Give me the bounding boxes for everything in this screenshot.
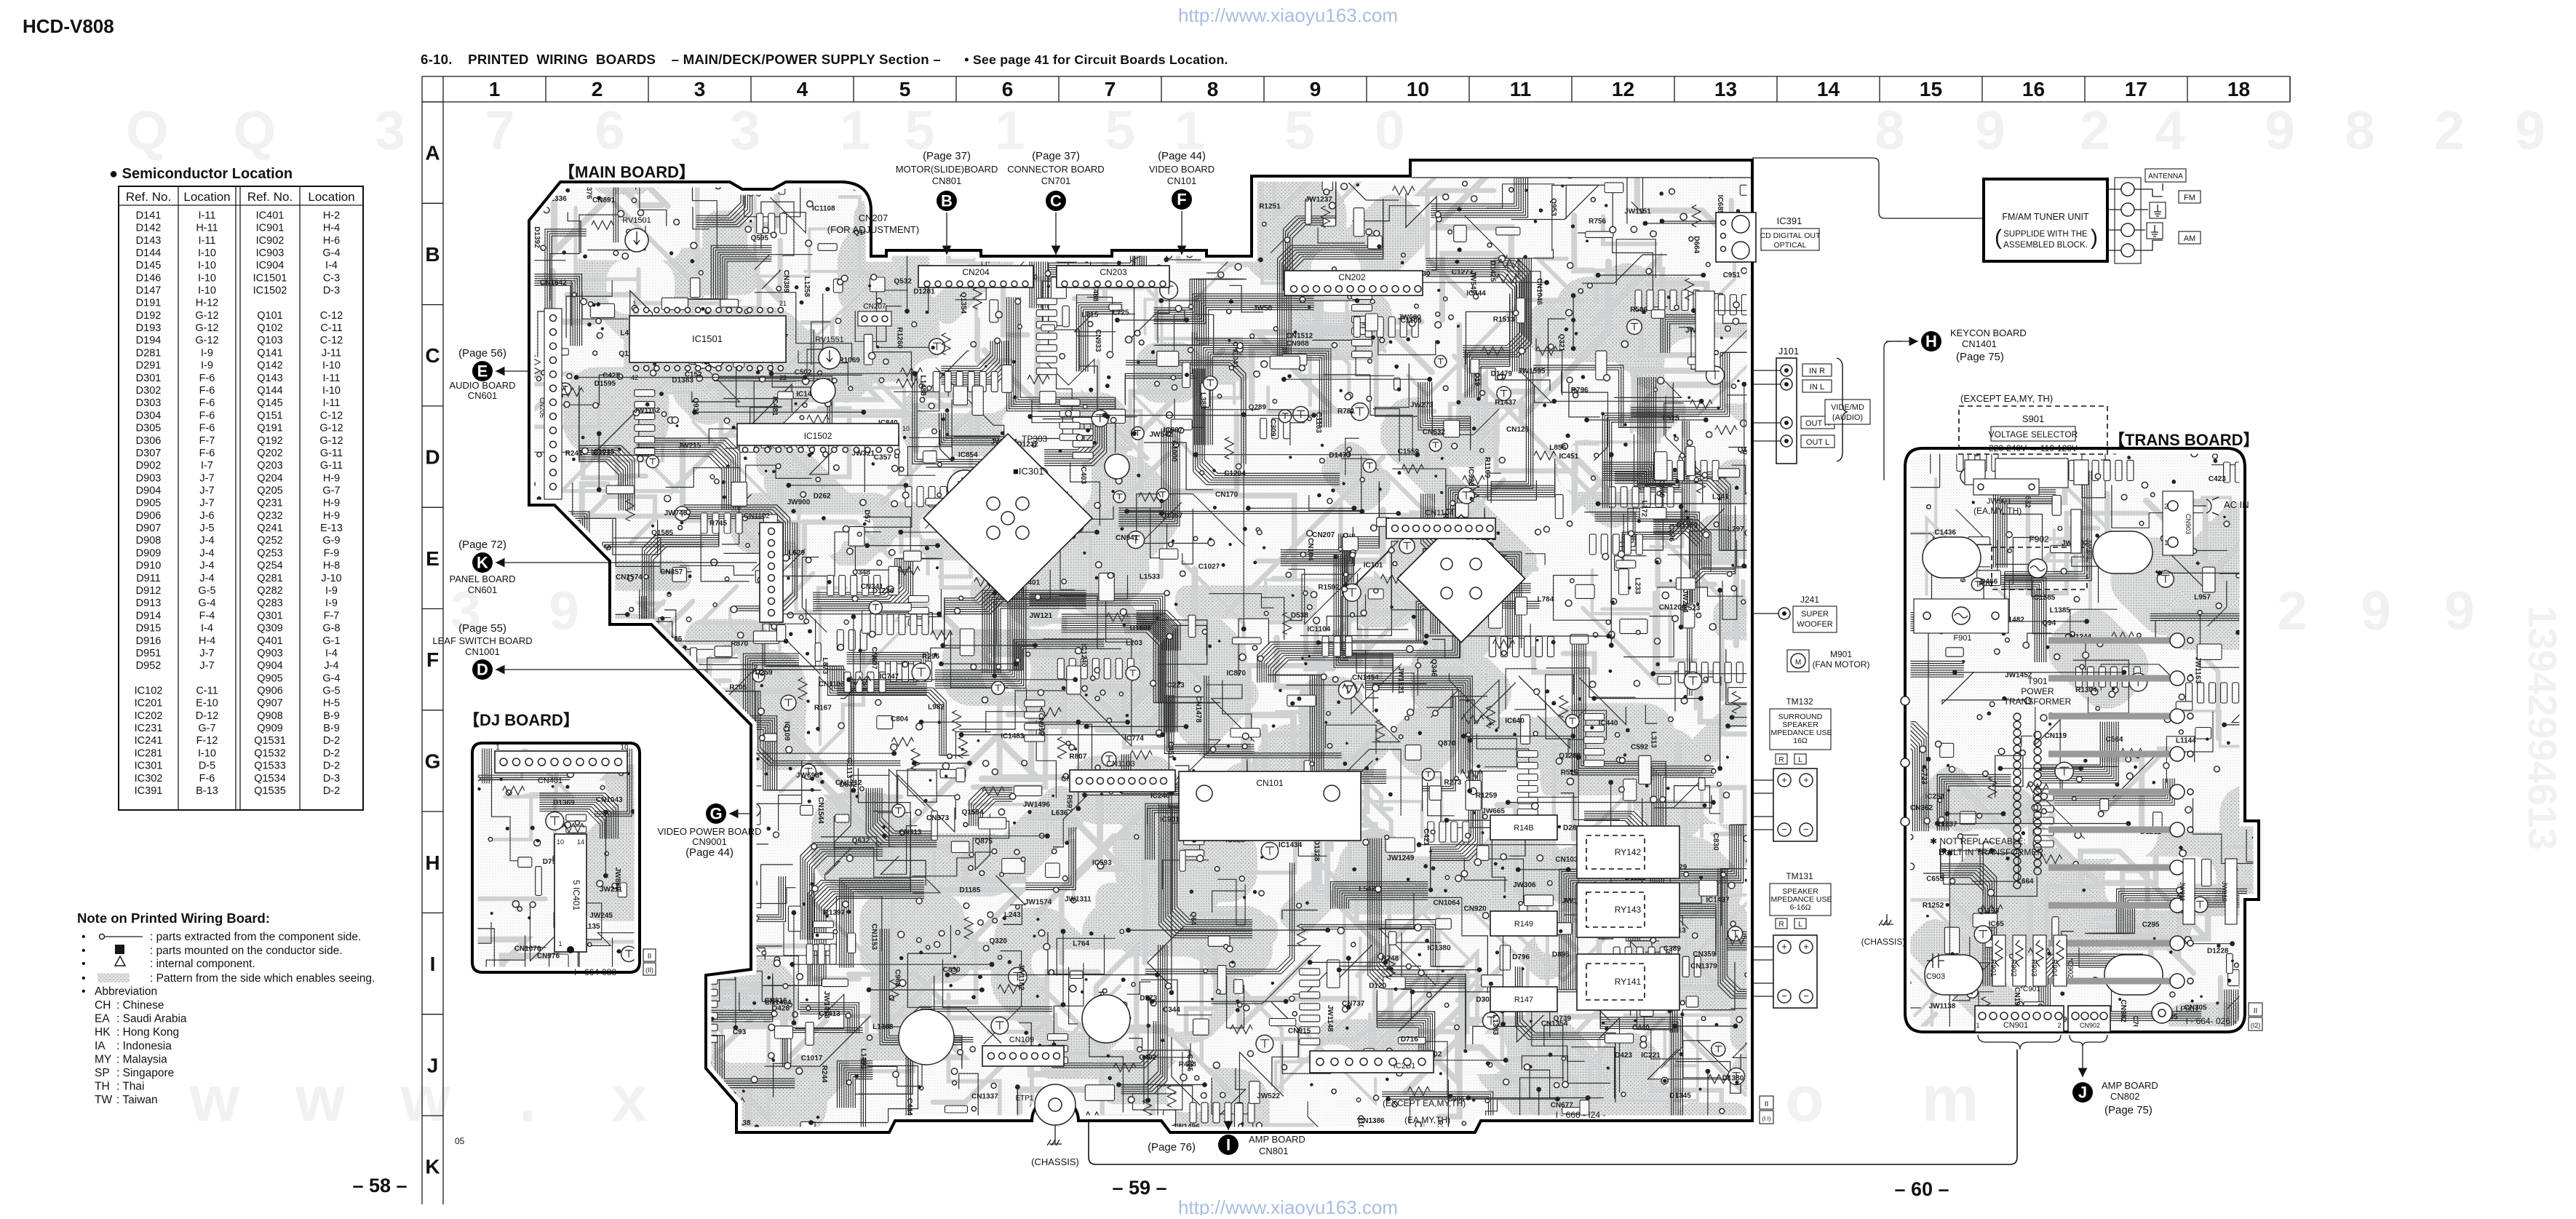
svg-text:Q253: Q253 xyxy=(257,547,282,559)
svg-text:A: A xyxy=(425,142,440,164)
svg-text:OPTICAL: OPTICAL xyxy=(1774,241,1807,250)
TM132 terminal block xyxy=(1773,769,1817,841)
svg-text:TW: TW xyxy=(95,1094,112,1106)
svg-text:: internal component.: : internal component. xyxy=(150,958,255,970)
svg-text:F: F xyxy=(426,648,439,671)
connector CN1102 xyxy=(760,523,783,622)
svg-text:D-3: D-3 xyxy=(323,773,340,785)
svg-text:8: 8 xyxy=(1875,100,1905,161)
trans chassis ground xyxy=(1886,914,1888,924)
svg-text:Q1535: Q1535 xyxy=(254,785,286,797)
svg-text:: Thai: : Thai xyxy=(116,1081,145,1093)
svg-text:http://www.xiaoyu163.com: http://www.xiaoyu163.com xyxy=(1178,1196,1398,1215)
fuse F901 xyxy=(1914,599,2008,633)
trans connector CN902 xyxy=(2068,1006,2110,1032)
svg-text:WOOFER: WOOFER xyxy=(1797,620,1833,629)
trans oval cutout top left xyxy=(1923,537,1981,578)
svg-text:G-12: G-12 xyxy=(195,335,218,346)
TM131 terminal block xyxy=(1773,935,1817,1008)
connector CN1401 keycon trace xyxy=(1696,291,1714,371)
svg-text:IC1502: IC1502 xyxy=(253,285,287,297)
svg-text:CN601: CN601 xyxy=(468,390,497,401)
svg-text:http://www.xiaoyu163.com: http://www.xiaoyu163.com xyxy=(1178,4,1398,26)
transformer winding fingers xyxy=(2048,638,2176,644)
connector CN202 xyxy=(1284,271,1423,295)
J241 super woofer xyxy=(1752,613,1780,614)
svg-text:Q281: Q281 xyxy=(257,573,282,584)
svg-text:(Page 76): (Page 76) xyxy=(1148,1141,1196,1154)
svg-text:JW1222: JW1222 xyxy=(597,1047,625,1055)
svg-text:C-12: C-12 xyxy=(320,335,343,346)
svg-text:1: 1 xyxy=(489,78,501,100)
svg-text:M901: M901 xyxy=(1830,649,1852,659)
svg-text:Q1534: Q1534 xyxy=(254,773,286,785)
svg-text:5: 5 xyxy=(899,78,911,100)
capacitor C903 xyxy=(1927,953,1944,968)
svg-text:IN R: IN R xyxy=(1809,367,1825,376)
svg-text:Q401: Q401 xyxy=(257,635,282,647)
resistor R147 xyxy=(1490,987,1557,1012)
svg-text:•: • xyxy=(82,945,86,957)
svg-text:F-6: F-6 xyxy=(199,385,215,397)
svg-text:TM131: TM131 xyxy=(1786,871,1813,881)
svg-text:: Indonesia: : Indonesia xyxy=(116,1040,172,1052)
connector CN1103 xyxy=(1070,770,1175,792)
svg-text:(Page 75): (Page 75) xyxy=(2104,1104,2152,1116)
svg-text:I-10: I-10 xyxy=(198,272,216,284)
svg-text:22: 22 xyxy=(779,374,787,381)
resistor R149 xyxy=(1490,911,1557,936)
svg-text:IC201: IC201 xyxy=(135,698,163,710)
svg-text:CN903: CN903 xyxy=(2185,514,2192,534)
svg-text:I-10: I-10 xyxy=(322,385,341,397)
svg-text:D909: D909 xyxy=(136,547,162,559)
svg-text:7: 7 xyxy=(485,100,515,161)
svg-text:Q301: Q301 xyxy=(257,610,282,622)
chassis mount circle ETP1 xyxy=(1035,1084,1076,1125)
svg-text:OUT L: OUT L xyxy=(1806,438,1829,447)
svg-text:: Taiwan: : Taiwan xyxy=(116,1094,158,1106)
svg-text:CN101: CN101 xyxy=(1256,778,1284,788)
long connection path main to trans CN901 xyxy=(1089,1049,2017,1164)
svg-text:CN1001: CN1001 xyxy=(465,646,500,657)
svg-text:I-9: I-9 xyxy=(201,347,213,359)
svg-text:C380: C380 xyxy=(654,713,672,721)
brace under CN902 xyxy=(2070,1035,2107,1047)
svg-text:JW911: JW911 xyxy=(2179,881,2186,901)
svg-text:8: 8 xyxy=(2345,100,2375,161)
svg-text:CN601: CN601 xyxy=(468,584,497,595)
svg-text:H-8: H-8 xyxy=(323,560,340,572)
svg-text:+: + xyxy=(1803,941,1809,952)
svg-text:+: + xyxy=(1803,774,1809,785)
svg-text:F-6: F-6 xyxy=(199,773,215,785)
svg-text:R903: R903 xyxy=(2030,959,2038,977)
svg-text:R149: R149 xyxy=(1514,920,1533,929)
antenna label xyxy=(2145,169,2186,182)
AC IN plug xyxy=(2193,497,2219,515)
svg-text:C246: C246 xyxy=(1054,215,1072,223)
svg-text:B: B xyxy=(941,192,953,210)
svg-text:I-4: I-4 xyxy=(325,260,338,271)
svg-text:D-5: D-5 xyxy=(199,761,215,772)
svg-text:10: 10 xyxy=(1407,78,1429,100)
svg-text:C903: C903 xyxy=(1926,972,1945,981)
svg-text:(CHASSIS): (CHASSIS) xyxy=(1031,1156,1079,1167)
AC IN connector CN903 xyxy=(2163,491,2193,555)
svg-text:Abbreviation: Abbreviation xyxy=(95,985,157,998)
svg-text:EA: EA xyxy=(95,1013,110,1025)
svg-text:B-9: B-9 xyxy=(323,710,340,722)
svg-text:D911: D911 xyxy=(136,573,161,584)
svg-text:C-12: C-12 xyxy=(320,310,343,322)
svg-text:R147: R147 xyxy=(1514,996,1533,1004)
svg-text:Q151: Q151 xyxy=(257,410,282,421)
lamp LP901 xyxy=(2152,1003,2172,1023)
svg-text:K: K xyxy=(477,554,488,572)
svg-text:G: G xyxy=(425,750,441,773)
svg-text:(Page 55): (Page 55) xyxy=(458,622,506,635)
svg-text:42: 42 xyxy=(631,374,638,381)
svg-text:Q141: Q141 xyxy=(257,347,282,359)
connector CN1104 xyxy=(1386,518,1495,539)
svg-text:D193: D193 xyxy=(136,322,162,334)
svg-text:JW901: JW901 xyxy=(1987,497,2011,506)
svg-text:POWER: POWER xyxy=(2021,686,2054,696)
svg-text:(Page 37): (Page 37) xyxy=(923,150,971,162)
connector CN101 big xyxy=(1179,771,1361,841)
svg-text:G-4: G-4 xyxy=(322,247,340,259)
svg-text:VIDE/MD: VIDE/MD xyxy=(1831,403,1864,412)
svg-text:Q309: Q309 xyxy=(257,623,282,635)
svg-text:G-12: G-12 xyxy=(319,435,343,447)
svg-text:TM132: TM132 xyxy=(1786,696,1813,707)
svg-text:4: 4 xyxy=(2155,100,2185,161)
svg-text:5: 5 xyxy=(1284,100,1315,161)
svg-text:9: 9 xyxy=(549,580,579,641)
svg-text:R1056: R1056 xyxy=(691,974,699,996)
svg-text:m: m xyxy=(1922,1063,1979,1135)
trimmer RV1551 xyxy=(819,347,840,369)
svg-text:I-10: I-10 xyxy=(198,285,216,297)
svg-text:IC211: IC211 xyxy=(587,998,607,1006)
svg-text:I-11: I-11 xyxy=(199,210,216,221)
svg-text:CN204: CN204 xyxy=(962,267,990,277)
svg-text:R901: R901 xyxy=(1989,959,1997,977)
svg-text:R710: R710 xyxy=(697,913,715,921)
fan motor M901 xyxy=(1787,650,1809,672)
svg-text:F902: F902 xyxy=(2029,534,2049,544)
svg-text:IC281: IC281 xyxy=(135,747,163,759)
svg-text:K: K xyxy=(425,1156,440,1178)
svg-text:w: w xyxy=(295,1063,346,1135)
svg-text:IC302: IC302 xyxy=(135,773,163,785)
svg-text:w: w xyxy=(189,1063,240,1135)
svg-text:CN802: CN802 xyxy=(2110,1091,2139,1102)
svg-text:D303: D303 xyxy=(136,397,162,409)
svg-text:D915: D915 xyxy=(136,623,162,635)
svg-text:D304: D304 xyxy=(136,410,162,421)
connector CN207 xyxy=(858,311,891,326)
main board copper pattern texture xyxy=(431,60,1884,1219)
svg-text:11: 11 xyxy=(1510,78,1532,100)
svg-text:H-9: H-9 xyxy=(323,510,340,522)
IC391 optical connector xyxy=(1716,213,1756,262)
svg-text:(Page 37): (Page 37) xyxy=(1032,150,1080,162)
svg-text:HK: HK xyxy=(95,1026,111,1039)
svg-text:CN401: CN401 xyxy=(538,777,562,785)
svg-text:: Pattern from the side which: : Pattern from the side which enables se… xyxy=(150,972,375,985)
svg-text:G-5: G-5 xyxy=(322,686,340,697)
svg-text:Q192: Q192 xyxy=(257,435,282,447)
JW903 jumper vertical xyxy=(2071,509,2081,553)
svg-text:Q204: Q204 xyxy=(257,472,282,484)
svg-text:−: − xyxy=(1803,824,1809,835)
svg-text:TP303: TP303 xyxy=(1022,434,1048,444)
svg-text:D214: D214 xyxy=(666,794,674,811)
svg-text:F-4: F-4 xyxy=(199,610,215,622)
dj board outline xyxy=(472,743,640,972)
svg-text:D146: D146 xyxy=(136,272,162,284)
chassis ground symbol main xyxy=(1054,1125,1056,1144)
svg-text:D902: D902 xyxy=(136,460,162,472)
svg-text:H: H xyxy=(425,851,440,874)
voltage selector dashed callout xyxy=(1959,406,2107,454)
svg-text:3: 3 xyxy=(375,100,405,161)
svg-text:Q144: Q144 xyxy=(257,385,282,397)
svg-text:IC241: IC241 xyxy=(135,735,163,747)
svg-text:VIDEO BOARD: VIDEO BOARD xyxy=(1149,164,1215,175)
svg-text:D194: D194 xyxy=(136,335,162,346)
svg-text:−: − xyxy=(1781,824,1787,835)
svg-text:2: 2 xyxy=(2057,1022,2061,1029)
svg-text:(EA,MY,TH): (EA,MY,TH) xyxy=(1404,1115,1450,1125)
IC301 diamond xyxy=(923,434,1092,603)
svg-text:9: 9 xyxy=(2361,580,2391,641)
dj IC401 xyxy=(554,834,587,952)
svg-text:VIDEO POWER BOARD: VIDEO POWER BOARD xyxy=(657,826,761,837)
svg-text:(FAN MOTOR): (FAN MOTOR) xyxy=(1812,659,1869,670)
svg-text:CN9001: CN9001 xyxy=(692,836,727,847)
svg-text:I-10: I-10 xyxy=(198,747,216,759)
svg-text:C: C xyxy=(425,344,440,367)
svg-text:(CHASSIS): (CHASSIS) xyxy=(1861,937,1906,947)
svg-text:D-2: D-2 xyxy=(323,785,340,797)
svg-text:AC IN: AC IN xyxy=(2224,499,2249,510)
svg-text:G-7: G-7 xyxy=(322,485,340,497)
svg-text:✱ NOT REPLACEABLE:: ✱ NOT REPLACEABLE: xyxy=(1930,836,2026,846)
svg-text:D903: D903 xyxy=(136,472,162,484)
svg-text:*C901: *C901 xyxy=(2020,985,2040,993)
svg-text:5 IC401: 5 IC401 xyxy=(571,880,581,910)
connector CN205 xyxy=(544,309,562,499)
svg-text:Location: Location xyxy=(183,190,230,204)
svg-text:13: 13 xyxy=(1714,78,1737,100)
svg-text:Q908: Q908 xyxy=(257,710,282,722)
svg-text:12: 12 xyxy=(1612,78,1634,100)
svg-text:MY: MY xyxy=(95,1053,111,1065)
svg-text:JW1415: JW1415 xyxy=(1196,215,1224,223)
connection line board top to tuner xyxy=(1752,158,1984,218)
svg-text:J-10: J-10 xyxy=(321,573,341,584)
label IN R xyxy=(1802,364,1832,376)
svg-text:Q205: Q205 xyxy=(257,485,282,497)
svg-text:G-9: G-9 xyxy=(322,535,340,547)
svg-text:ASSEMBLED BLOCK.: ASSEMBLED BLOCK. xyxy=(2003,241,2088,250)
svg-text:21: 21 xyxy=(779,300,787,307)
svg-text:1: 1 xyxy=(840,100,870,161)
svg-text:II: II xyxy=(2254,1007,2258,1015)
svg-text:SUPER: SUPER xyxy=(1801,610,1829,619)
svg-text:J-4: J-4 xyxy=(324,660,338,672)
svg-text:B-9: B-9 xyxy=(323,723,340,734)
svg-text:II: II xyxy=(648,953,652,961)
connector CN203 xyxy=(1057,266,1169,287)
antenna ground 1 xyxy=(2150,202,2166,218)
svg-text:R: R xyxy=(1778,756,1784,764)
svg-text:Q907: Q907 xyxy=(257,698,282,710)
svg-text:+: + xyxy=(1781,941,1787,952)
IC1502 xyxy=(737,424,899,445)
big circle C913 xyxy=(899,1009,954,1065)
svg-text:2: 2 xyxy=(2080,100,2110,161)
svg-text:D: D xyxy=(477,661,488,679)
svg-text:IC903: IC903 xyxy=(256,247,285,259)
svg-text:CN701: CN701 xyxy=(1041,175,1070,186)
svg-text:6-10. PRINTED WIRING BOAR: 6-10. PRINTED WIRING BOARDS – MAIN/DECK/… xyxy=(421,52,1228,67)
svg-text:SP: SP xyxy=(95,1067,110,1079)
trans oval cutout bottom right xyxy=(2104,955,2163,995)
svg-text:Q: Q xyxy=(126,100,168,161)
svg-text:D952: D952 xyxy=(136,660,162,672)
svg-text:Q909: Q909 xyxy=(257,723,282,734)
svg-text:【TRANS BOARD】: 【TRANS BOARD】 xyxy=(2109,431,2259,449)
svg-text:● Semiconductor Location: ● Semiconductor Location xyxy=(109,166,293,182)
svg-text:– 58 –: – 58 – xyxy=(352,1175,407,1196)
svg-text:I-11: I-11 xyxy=(323,397,341,409)
tuner connector xyxy=(2115,178,2141,263)
svg-text:F-6: F-6 xyxy=(199,373,215,384)
label IN L xyxy=(1802,380,1832,392)
svg-text:B: B xyxy=(425,243,440,266)
callout G video power board xyxy=(706,803,726,824)
svg-text:KEYCON BOARD: KEYCON BOARD xyxy=(1950,327,2027,338)
svg-text:I - 664- 026 -: I - 664- 026 - xyxy=(2186,1016,2236,1026)
svg-text:): ) xyxy=(2091,226,2098,250)
svg-text:(EXCEPT EA,MY, TH): (EXCEPT EA,MY, TH) xyxy=(1960,393,2053,404)
svg-text:CN101: CN101 xyxy=(1167,175,1196,186)
svg-text:(AUDIO): (AUDIO) xyxy=(1832,413,1863,422)
svg-text:9: 9 xyxy=(1310,78,1321,100)
svg-text:I: I xyxy=(1226,1136,1231,1154)
svg-text:10: 10 xyxy=(620,744,629,752)
svg-text:Q252: Q252 xyxy=(257,535,282,547)
svg-text:VOLTAGE SELECTOR: VOLTAGE SELECTOR xyxy=(1989,429,2078,440)
svg-text:JW1591: JW1591 xyxy=(564,662,572,690)
trans oval cutout top right xyxy=(2093,531,2152,573)
svg-text:J-7: J-7 xyxy=(199,648,214,659)
svg-text:*C902: *C902 xyxy=(2066,958,2074,978)
svg-text:ETP1: ETP1 xyxy=(1015,1095,1033,1103)
svg-text:(FOR ADJUSTMENT): (FOR ADJUSTMENT) xyxy=(827,224,919,235)
label OUT L xyxy=(1801,435,1834,448)
svg-text:4: 4 xyxy=(797,78,808,100)
svg-text:J-11: J-11 xyxy=(322,347,341,359)
svg-text:D: D xyxy=(425,446,440,469)
svg-text:Q1531: Q1531 xyxy=(254,735,286,747)
svg-text:C: C xyxy=(1050,192,1062,210)
svg-text:Q191: Q191 xyxy=(257,423,282,434)
svg-text:I-4: I-4 xyxy=(325,648,338,659)
svg-text:D192: D192 xyxy=(136,310,162,322)
svg-text:IC1501: IC1501 xyxy=(253,272,287,284)
svg-text:Q254: Q254 xyxy=(257,560,282,572)
svg-text:1: 1 xyxy=(632,300,636,307)
svg-text:B-13: B-13 xyxy=(196,785,218,797)
svg-text:J: J xyxy=(427,1054,439,1076)
svg-text:IN L: IN L xyxy=(1810,383,1824,392)
svg-text:E-13: E-13 xyxy=(320,523,343,534)
IC1501 xyxy=(629,316,786,362)
svg-text:2: 2 xyxy=(2434,100,2465,161)
connector CN204 xyxy=(918,266,1033,287)
svg-text:.: . xyxy=(519,1063,536,1135)
svg-text:J-4: J-4 xyxy=(199,535,214,547)
svg-text:R14B: R14B xyxy=(1514,824,1534,833)
svg-text:C-11: C-11 xyxy=(196,686,218,697)
svg-text:AMP BOARD: AMP BOARD xyxy=(2102,1080,2158,1091)
svg-text:D144: D144 xyxy=(136,247,162,259)
svg-text:ANTENNA: ANTENNA xyxy=(2148,172,2183,180)
svg-text:: Singapore: : Singapore xyxy=(116,1067,174,1079)
svg-text:SUPPLIDE WITH THE: SUPPLIDE WITH THE xyxy=(2003,230,2088,239)
fuse F902 dashed xyxy=(1992,547,2087,589)
svg-text:D281: D281 xyxy=(136,347,162,359)
relay RY141 xyxy=(1577,954,1679,1010)
svg-text:T901: T901 xyxy=(2027,676,2048,686)
svg-text:LP901: LP901 xyxy=(2176,1005,2199,1014)
svg-text:IC904: IC904 xyxy=(256,260,285,271)
svg-text:【DJ BOARD】: 【DJ BOARD】 xyxy=(464,711,579,729)
JW901 jumper xyxy=(1973,479,2039,495)
svg-text:TRANSFORMER: TRANSFORMER xyxy=(2004,696,2072,707)
svg-text:CN202: CN202 xyxy=(1338,272,1366,282)
svg-text:J-7: J-7 xyxy=(199,472,214,484)
svg-text:HCD-V808: HCD-V808 xyxy=(23,15,114,37)
svg-text:CN1102: CN1102 xyxy=(744,512,770,520)
svg-text:IC286: IC286 xyxy=(699,694,718,702)
svg-text:Q1533: Q1533 xyxy=(254,761,286,772)
svg-text:•: • xyxy=(82,958,86,970)
svg-text:CN1103: CN1103 xyxy=(1106,760,1135,769)
svg-text:JW711: JW711 xyxy=(549,1050,573,1058)
svg-text:(Page 72): (Page 72) xyxy=(458,539,506,551)
antenna wires xyxy=(2134,183,2163,250)
svg-text:– 59 –: – 59 – xyxy=(1112,1177,1166,1199)
trans II marks xyxy=(2249,1003,2262,1016)
svg-text:■IC301: ■IC301 xyxy=(1013,466,1044,477)
svg-text:I - 666 - I24 -: I - 666 - I24 - xyxy=(1556,1110,1606,1120)
relay RY142 xyxy=(1577,826,1679,878)
antenna ground 2 xyxy=(2147,223,2163,239)
relay RY143 xyxy=(1577,883,1679,937)
svg-text:J101: J101 xyxy=(1778,346,1799,357)
svg-text:CN109: CN109 xyxy=(1009,1036,1034,1044)
svg-text:【MAIN BOARD】: 【MAIN BOARD】 xyxy=(559,163,695,181)
big circle C904 xyxy=(1082,995,1130,1043)
svg-text:Q283: Q283 xyxy=(257,597,282,609)
svg-text:Q519: Q519 xyxy=(611,648,619,667)
